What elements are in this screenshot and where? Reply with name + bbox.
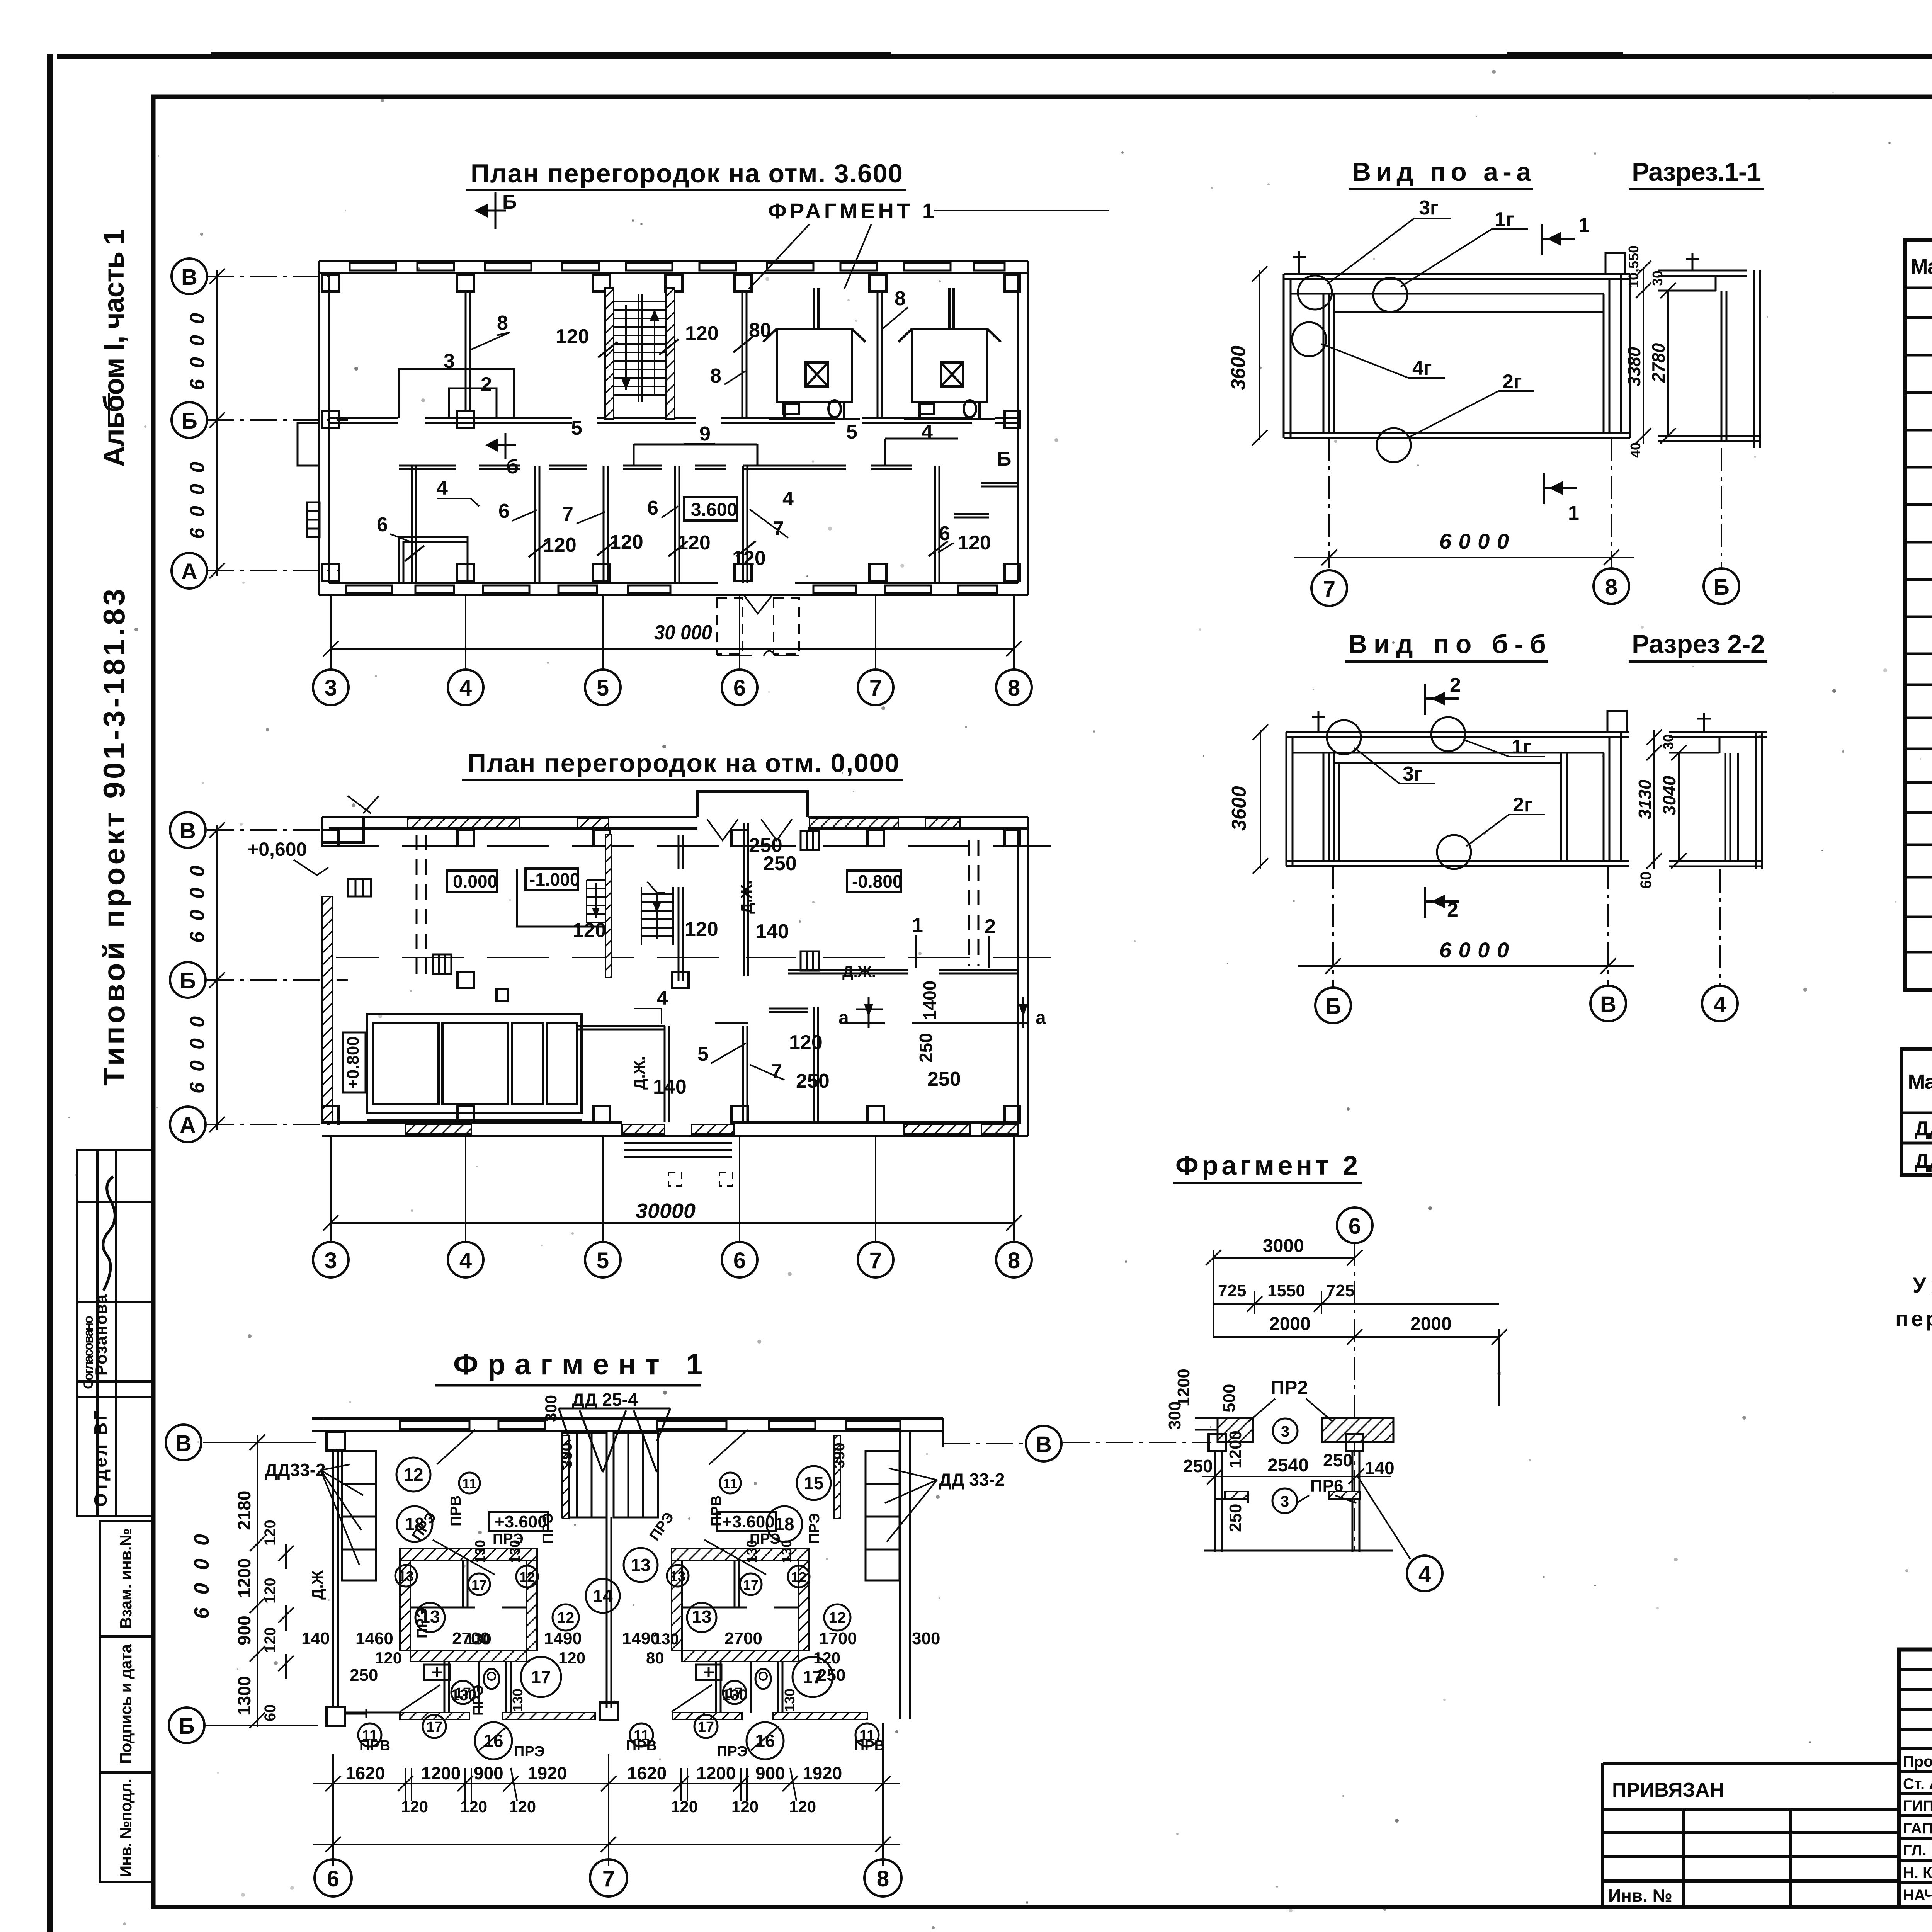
svg-text:130: 130 <box>779 1540 794 1563</box>
fragment 1: leader lines <box>400 1430 779 1750</box>
plan 0.000: dimension and position labels <box>573 834 996 1223</box>
svg-text:725: 725 <box>1326 1281 1354 1300</box>
svg-text:120: 120 <box>685 322 719 345</box>
SPEC-TABLE-1 grid <box>1905 240 1932 990</box>
svg-text:4: 4 <box>657 987 668 1009</box>
fragment 1: left dimension chain <box>228 1435 301 1728</box>
svg-text:6: 6 <box>733 1248 746 1273</box>
svg-text:16: 16 <box>483 1731 503 1751</box>
svg-text:ПРЭ: ПРЭ <box>514 1743 545 1760</box>
svg-text:120: 120 <box>789 1798 816 1816</box>
svg-text:Б: Б <box>997 448 1011 470</box>
plan 0.000: lower partitions vertical <box>665 1007 818 1122</box>
fragment 1: bottom dimension lines <box>313 1723 900 1866</box>
svg-text:8: 8 <box>895 287 906 310</box>
svg-text:6: 6 <box>377 514 388 536</box>
svg-text:2780: 2780 <box>1648 343 1668 383</box>
svg-text:3г: 3г <box>1403 763 1422 785</box>
svg-text:120: 120 <box>556 325 589 348</box>
svg-text:1620: 1620 <box>627 1763 667 1783</box>
svg-text:30000: 30000 <box>636 1199 696 1223</box>
view б-б: axis circles Б В 4 <box>1315 988 1351 1023</box>
signature squiggle <box>103 1177 115 1291</box>
plan 0.000: ventilation grilles <box>348 831 819 974</box>
view а-а: section mark 1 (top) <box>1542 224 1575 255</box>
svg-text:4: 4 <box>459 1248 472 1273</box>
svg-text:9: 9 <box>699 423 711 445</box>
razrez 2-2: section body <box>1669 713 1767 869</box>
svg-text:7: 7 <box>602 1866 615 1891</box>
axis circle А <box>172 553 207 588</box>
plan 0.000: lower partitions horizontal <box>576 1009 1028 1029</box>
svg-text:120: 120 <box>262 1627 279 1653</box>
top scan edge line <box>57 54 1932 59</box>
svg-text:8: 8 <box>877 1866 889 1891</box>
left dim line <box>209 822 225 1132</box>
svg-text:ГИП: ГИП <box>1903 1798 1932 1815</box>
plan 3.600: window boxes top wall <box>350 263 1005 270</box>
plan 0.000: entrance vestibule <box>697 791 808 817</box>
svg-text:250: 250 <box>916 1033 936 1063</box>
view б-б: vertical dimension 3600 <box>1253 724 1268 874</box>
svg-text:ПРВ: ПРВ <box>626 1738 657 1754</box>
view а-а: dimension 6000 <box>1294 550 1634 565</box>
svg-text:40: 40 <box>1628 442 1643 458</box>
plan 0.000: right wall <box>1018 817 1028 1136</box>
svg-text:1200: 1200 <box>696 1763 736 1783</box>
svg-text:60: 60 <box>262 1704 279 1722</box>
svg-text:250: 250 <box>1183 1456 1213 1476</box>
fragment 1: circled position numbers <box>358 1458 879 1759</box>
plan 0.000: level boxes 0.000 -1.000 -0.800 <box>447 871 497 892</box>
plan 0.000: axis dash-dot lines В Б А <box>207 830 348 1124</box>
svg-text:5: 5 <box>846 421 857 443</box>
svg-text:6: 6 <box>1349 1214 1361 1239</box>
svg-text:300: 300 <box>1165 1401 1184 1430</box>
plan 0.000: expansion joint dashed pair <box>417 835 978 978</box>
plan 3.600: building outer walls <box>319 261 1028 595</box>
plan 0.000: upper partitions vertical <box>679 823 748 981</box>
svg-text:11: 11 <box>723 1476 738 1492</box>
svg-text:2000: 2000 <box>1269 1314 1311 1334</box>
svg-text:140: 140 <box>1365 1458 1395 1478</box>
svg-text:1700: 1700 <box>819 1629 857 1648</box>
svg-text:1г: 1г <box>1512 736 1531 758</box>
svg-text:130: 130 <box>782 1689 798 1712</box>
svg-text:4: 4 <box>1714 992 1726 1017</box>
svg-text:3000: 3000 <box>1263 1236 1304 1256</box>
fragment 2: axis В circle and line <box>1063 1442 1211 1443</box>
svg-text:250: 250 <box>1323 1450 1353 1470</box>
svg-text:Д.Ж.: Д.Ж. <box>842 963 876 980</box>
svg-text:7: 7 <box>869 1248 882 1273</box>
svg-text:Б: Б <box>502 191 517 213</box>
svg-text:Д.Ж.: Д.Ж. <box>631 1056 648 1090</box>
fragment 1: wardrobe ДД33-2 left <box>342 1451 376 1580</box>
margin signature table (rotated) <box>77 1150 153 1516</box>
svg-text:130: 130 <box>507 1540 523 1563</box>
view б-б: section mark 2 (top) <box>1425 684 1459 715</box>
plan 0.000: small stair <box>587 880 605 923</box>
svg-text:250: 250 <box>927 1068 961 1090</box>
svg-text:1920: 1920 <box>803 1763 842 1783</box>
svg-text:Фрагмент 2: Фрагмент 2 <box>1175 1150 1360 1180</box>
svg-text:8: 8 <box>1008 675 1020 701</box>
svg-text:Вид по а-а: Вид по а-а <box>1352 157 1531 187</box>
fragment 2: partition walls <box>1195 1418 1393 1552</box>
svg-text:120: 120 <box>558 1649 585 1667</box>
svg-text:ГЛ. КОНСТ.: ГЛ. КОНСТ. <box>1903 1842 1932 1859</box>
plan 3.600: sanitary cabin unit 1 <box>763 288 866 419</box>
plan 0.000: level box +0.800 <box>343 1032 366 1092</box>
svg-text:120: 120 <box>671 1798 698 1816</box>
svg-text:3600: 3600 <box>1228 786 1250 831</box>
svg-text:ПРЭ: ПРЭ <box>540 1513 556 1544</box>
svg-text:300: 300 <box>542 1395 560 1422</box>
svg-text:ПРЭ: ПРЭ <box>414 1607 430 1638</box>
plan 3.600: column squares <box>322 274 1020 581</box>
fragment 1: axis dash-dot lines <box>203 1442 1028 1725</box>
plan 3.600: axis dash-dot lines В Б А <box>207 276 348 571</box>
TITLE-BLOCK <box>1899 1650 1932 1907</box>
fragment 2: middle dimension row 250 2540 250 140 <box>1202 1469 1391 1484</box>
plan 3.600: left porch and exterior stair <box>298 423 320 537</box>
svg-text:2г: 2г <box>1513 794 1532 816</box>
svg-text:ФРАГМЕНТ 1: ФРАГМЕНТ 1 <box>768 199 934 223</box>
fragment 1: axis circles 6 7 8 <box>315 1859 352 1896</box>
plan 0.000: dimension line 30000 <box>323 1136 1022 1242</box>
svg-text:5: 5 <box>571 417 582 439</box>
plan 3.600: window boxes bottom wall <box>346 585 997 593</box>
svg-text:130: 130 <box>472 1540 488 1563</box>
fragment 2: column squares <box>1209 1434 1226 1451</box>
svg-text:Вид по б-б: Вид по б-б <box>1348 629 1546 659</box>
svg-text:Б: Б <box>180 968 196 993</box>
svg-text:120: 120 <box>375 1649 402 1667</box>
svg-text:1490: 1490 <box>622 1629 660 1648</box>
plan 3.600: room partition pos.2 <box>449 388 497 418</box>
svg-text:250: 250 <box>350 1666 378 1685</box>
svg-text:130: 130 <box>451 1687 477 1704</box>
svg-text:6: 6 <box>647 497 658 519</box>
svg-text:17: 17 <box>471 1577 487 1593</box>
svg-text:140: 140 <box>301 1629 330 1648</box>
view а-а: top ticks <box>1293 251 1625 274</box>
svg-text:Ст. АРХ.: Ст. АРХ. <box>1903 1776 1932 1793</box>
svg-text:120: 120 <box>731 1798 759 1816</box>
svg-text:В: В <box>1036 1432 1052 1457</box>
fragment 2: axis circle 6 <box>1337 1207 1372 1243</box>
svg-text:390: 390 <box>558 1442 575 1468</box>
svg-text:Марка поз.: Марка поз. <box>1911 255 1932 278</box>
plan 0.000: section marks а-а <box>856 997 1023 1028</box>
fragment 1: top wall <box>312 1418 943 1431</box>
grid column squares <box>322 830 1020 1122</box>
plan 3.600: partitions pos.8 <box>466 291 882 418</box>
svg-text:8: 8 <box>1008 1248 1020 1273</box>
svg-text:В: В <box>180 818 196 844</box>
plan 0.000: top-left wall notch <box>322 817 364 842</box>
svg-text:А: А <box>181 559 197 584</box>
svg-text:60: 60 <box>1638 872 1655 889</box>
fragment 1: sanitary cabin cluster right <box>672 1435 840 1713</box>
plan 3.600: lower room partitions vertical <box>412 466 939 583</box>
view б-б: axis drop lines <box>1333 866 1720 988</box>
svg-text:120: 120 <box>262 1578 279 1604</box>
plan 0.000: stair hatched partition <box>605 835 612 978</box>
axis circle В left <box>166 1425 201 1460</box>
svg-text:В: В <box>181 265 197 290</box>
svg-text:Альбом I, часть 1: Альбом I, часть 1 <box>98 229 130 467</box>
svg-text:0.000: 0.000 <box>453 871 497 891</box>
left scan edge line <box>47 54 53 1932</box>
left dim line 6000/6000 <box>209 269 225 578</box>
svg-text:2: 2 <box>985 915 996 938</box>
svg-text:ПРИВЯЗАН: ПРИВЯЗАН <box>1612 1779 1724 1801</box>
svg-text:30 000: 30 000 <box>654 621 712 644</box>
svg-text:250: 250 <box>817 1666 845 1685</box>
svg-text:Н. КОНТР.: Н. КОНТР. <box>1903 1864 1932 1881</box>
axis circle В <box>172 259 207 294</box>
svg-text:130: 130 <box>722 1687 748 1704</box>
svg-text:+0.800: +0.800 <box>344 1036 362 1089</box>
svg-text:НАЧ. ОТД.: НАЧ. ОТД. <box>1903 1887 1932 1904</box>
svg-text:ДД 25-4: ДД 25-4 <box>1915 1150 1932 1172</box>
svg-text:Согласовано: Согласовано <box>81 1316 96 1389</box>
plan 3.600: section mark б (lower) <box>489 433 516 459</box>
plan 3.600: bottom-left room pos.6 <box>399 537 468 583</box>
plan 3.600: section mark б (top) <box>479 192 506 229</box>
svg-text:1200: 1200 <box>1226 1430 1245 1468</box>
svg-text:Инв. №подл.: Инв. №подл. <box>117 1779 135 1877</box>
PRIVYAZAN block <box>1603 1763 1899 1907</box>
plan 0.000: axis circles 3-8 <box>313 1242 1032 1277</box>
plan 3.600: entrance canopy dashed <box>717 598 799 654</box>
svg-text:4: 4 <box>1418 1562 1431 1587</box>
svg-text:В: В <box>175 1431 192 1456</box>
svg-text:17: 17 <box>698 1719 714 1735</box>
svg-text:12: 12 <box>829 1609 846 1626</box>
svg-text:План перегородок на отм. 0,00: План перегородок на отм. 0,000 <box>467 748 899 778</box>
svg-text:1: 1 <box>912 914 923 937</box>
svg-text:А: А <box>180 1113 196 1138</box>
fragment 1: partition on axis 7 <box>607 1517 611 1708</box>
svg-text:ПРВ: ПРВ <box>359 1738 390 1754</box>
svg-text:14: 14 <box>593 1586 613 1606</box>
plan 0.000: interior dashed axis lines <box>336 846 1051 957</box>
svg-text:300: 300 <box>912 1629 940 1648</box>
svg-text:ПРВ: ПРВ <box>448 1495 464 1526</box>
svg-text:ПРВ: ПРВ <box>708 1495 724 1526</box>
svg-text:+3.600: +3.600 <box>495 1512 547 1531</box>
svg-text:17: 17 <box>743 1577 759 1593</box>
svg-text:ПР2: ПР2 <box>1270 1377 1308 1398</box>
svg-text:7: 7 <box>1323 577 1335 602</box>
fragment 1: sanitary cabin cluster left <box>400 1435 569 1713</box>
plan 0.000: bottom wall <box>322 1122 1028 1136</box>
svg-text:1550: 1550 <box>1267 1281 1305 1300</box>
svg-text:1: 1 <box>1568 502 1579 524</box>
svg-text:2г: 2г <box>1502 371 1522 393</box>
svg-text:130: 130 <box>744 1540 760 1563</box>
axis circle Б <box>170 962 206 998</box>
svg-text:а: а <box>838 1008 849 1028</box>
svg-text:2: 2 <box>1450 674 1461 696</box>
plan 0.000: tanks block <box>367 1014 582 1120</box>
svg-text:ПРЭ: ПРЭ <box>806 1513 823 1544</box>
svg-text:Д.Ж.: Д.Ж. <box>738 880 755 914</box>
svg-text:1200: 1200 <box>1174 1369 1193 1406</box>
fragment 2: top dimension chains <box>1206 1250 1507 1406</box>
svg-text:4: 4 <box>922 421 933 443</box>
svg-text:17: 17 <box>426 1719 442 1735</box>
svg-text:13: 13 <box>692 1607 711 1627</box>
svg-text:120: 120 <box>677 532 711 554</box>
svg-text:900: 900 <box>755 1763 785 1783</box>
svg-text:Проверил: Проверил <box>1903 1753 1932 1770</box>
svg-text:120: 120 <box>789 1031 823 1054</box>
svg-text:2: 2 <box>1447 899 1458 921</box>
svg-text:7: 7 <box>562 503 573 526</box>
axis circle В <box>170 812 206 848</box>
svg-text:а: а <box>1036 1008 1046 1028</box>
svg-text:8: 8 <box>497 312 508 334</box>
svg-text:4г: 4г <box>1412 357 1432 379</box>
fragment 1: partition on axis 6 (Д.Ж) <box>333 1449 338 1708</box>
plan 0.000: leader lines <box>634 935 989 1080</box>
svg-text:ПРЭ: ПРЭ <box>717 1743 748 1760</box>
svg-text:3040: 3040 <box>1659 776 1679 815</box>
svg-text:перегородок и монтажные узл: перегородок и монтажные узлы см. серию 1… <box>1895 1306 1932 1331</box>
svg-text:ПР6: ПР6 <box>1310 1476 1343 1495</box>
svg-text:Б: Б <box>1325 994 1341 1019</box>
svg-text:3: 3 <box>1281 1493 1289 1510</box>
svg-text:4: 4 <box>459 675 472 701</box>
svg-text:3130: 3130 <box>1635 779 1655 819</box>
svg-text:-0.800: -0.800 <box>852 871 902 891</box>
svg-text:250: 250 <box>763 852 797 875</box>
view а-а: node callout circles <box>1292 276 1411 462</box>
svg-text:120: 120 <box>685 918 718 940</box>
svg-text:ДД 25-4: ДД 25-4 <box>572 1389 638 1410</box>
svg-text:120: 120 <box>262 1520 279 1546</box>
axis circle Б left <box>169 1708 204 1743</box>
plan 0.000: outside entrance steps <box>624 1143 732 1157</box>
svg-text:Разрез 2-2: Разрез 2-2 <box>1632 629 1765 659</box>
svg-text:12: 12 <box>519 1569 535 1585</box>
plan 3.600: position number labels <box>377 287 1011 570</box>
svg-text:5: 5 <box>697 1043 709 1065</box>
view а-а: axis drop lines <box>1329 438 1721 568</box>
svg-text:3: 3 <box>444 350 455 372</box>
svg-text:1400: 1400 <box>920 981 940 1020</box>
svg-text:ГАП: ГАП <box>1903 1820 1932 1837</box>
svg-text:2540: 2540 <box>1267 1455 1309 1476</box>
axis circle А <box>170 1107 206 1142</box>
svg-text:390: 390 <box>831 1442 848 1468</box>
plan 3.600: wall on axis Б <box>329 418 1018 423</box>
svg-text:5: 5 <box>597 1248 609 1273</box>
svg-text:Д.Ж: Д.Ж <box>309 1570 326 1600</box>
margin strip: Взам.инв / Подпись и дата / Инв.подл (rotated) <box>100 1521 153 1882</box>
svg-text:80: 80 <box>646 1649 664 1667</box>
plan 0.000: wall pieces near axis Б right <box>788 970 1018 973</box>
plan 3.600: 120 dimension ticks <box>405 337 948 561</box>
svg-text:Инв. №: Инв. № <box>1608 1886 1672 1906</box>
fragment 1: right wall <box>900 1418 943 1719</box>
fragment 1: top wall window boxes <box>400 1421 900 1429</box>
svg-text:3380: 3380 <box>1624 347 1644 386</box>
svg-text:12: 12 <box>557 1609 575 1626</box>
svg-text:1490: 1490 <box>544 1629 582 1648</box>
svg-text:8: 8 <box>1605 575 1617 600</box>
plan 3.600: partition pieces pos.5/9 <box>634 439 958 466</box>
svg-text:8: 8 <box>710 365 721 387</box>
svg-text:3: 3 <box>325 1248 337 1273</box>
fragment 1: level boxes +3.600 <box>489 1512 548 1531</box>
svg-text:6: 6 <box>327 1866 339 1891</box>
svg-text:12: 12 <box>791 1569 806 1585</box>
svg-text:1460: 1460 <box>355 1629 393 1648</box>
plan 0.000: main stair <box>641 882 673 945</box>
svg-text:3: 3 <box>1281 1423 1289 1440</box>
plan 3.600: sanitary cabin unit 2 <box>898 288 1001 419</box>
SPEC-TABLE-2 grid <box>1901 1049 1932 1175</box>
axis circle Б <box>172 402 207 438</box>
svg-text:15: 15 <box>804 1473 823 1493</box>
svg-text:2700: 2700 <box>452 1629 490 1648</box>
view а-а: panel elevation body <box>1284 274 1630 438</box>
plan 3.600: stair enclosure hatched walls <box>605 288 614 419</box>
svg-text:Взам. инв.№: Взам. инв.№ <box>117 1528 135 1629</box>
svg-text:1300: 1300 <box>234 1676 254 1716</box>
svg-text:Типовой проект 901-3-181.83: Типовой проект 901-3-181.83 <box>97 589 131 1086</box>
svg-text:30: 30 <box>1650 270 1665 286</box>
svg-text:500: 500 <box>1220 1384 1239 1412</box>
view б-б: node callout circles <box>1327 717 1471 869</box>
svg-text:120: 120 <box>957 532 991 554</box>
svg-text:+0,600: +0,600 <box>247 838 307 860</box>
fragment 2: axis circle 4 with leader <box>1407 1556 1442 1591</box>
svg-text:-1.000: -1.000 <box>529 869 580 889</box>
svg-text:б: б <box>506 456 519 478</box>
svg-text:3: 3 <box>325 675 337 701</box>
plan 3.600: lower room partitions horizontal <box>399 466 1018 517</box>
fragment 1: ПРВ/ПРЭ/130 labels <box>359 1442 885 1760</box>
svg-text:140: 140 <box>755 920 789 943</box>
svg-text:5: 5 <box>597 675 609 701</box>
svg-text:120: 120 <box>732 547 766 570</box>
svg-text:2180: 2180 <box>234 1491 254 1530</box>
svg-text:30: 30 <box>1660 734 1676 750</box>
view а-а: section mark 1 (bottom) <box>1544 473 1577 504</box>
svg-text:13: 13 <box>398 1568 414 1584</box>
view а-а: vertical dimension 3600 <box>1252 266 1267 446</box>
plan 3.600: level mark 3.600 <box>684 497 737 520</box>
plan 0.000: pit outline -1.000 <box>517 869 603 927</box>
svg-text:1200: 1200 <box>421 1763 461 1783</box>
plan 0.000: left wall hatched <box>322 896 333 1122</box>
view б-б: panel elevation body <box>1286 732 1629 866</box>
svg-text:3600: 3600 <box>1227 345 1250 390</box>
svg-text:ДД 33-2: ДД 33-2 <box>1915 1117 1932 1140</box>
svg-text:10,550: 10,550 <box>1626 245 1641 288</box>
svg-text:2: 2 <box>481 373 492 396</box>
svg-text:1620: 1620 <box>345 1763 385 1783</box>
svg-text:6: 6 <box>939 522 950 545</box>
svg-text:725: 725 <box>1218 1281 1246 1300</box>
fragment 1: dimension labels <box>345 1395 940 1816</box>
